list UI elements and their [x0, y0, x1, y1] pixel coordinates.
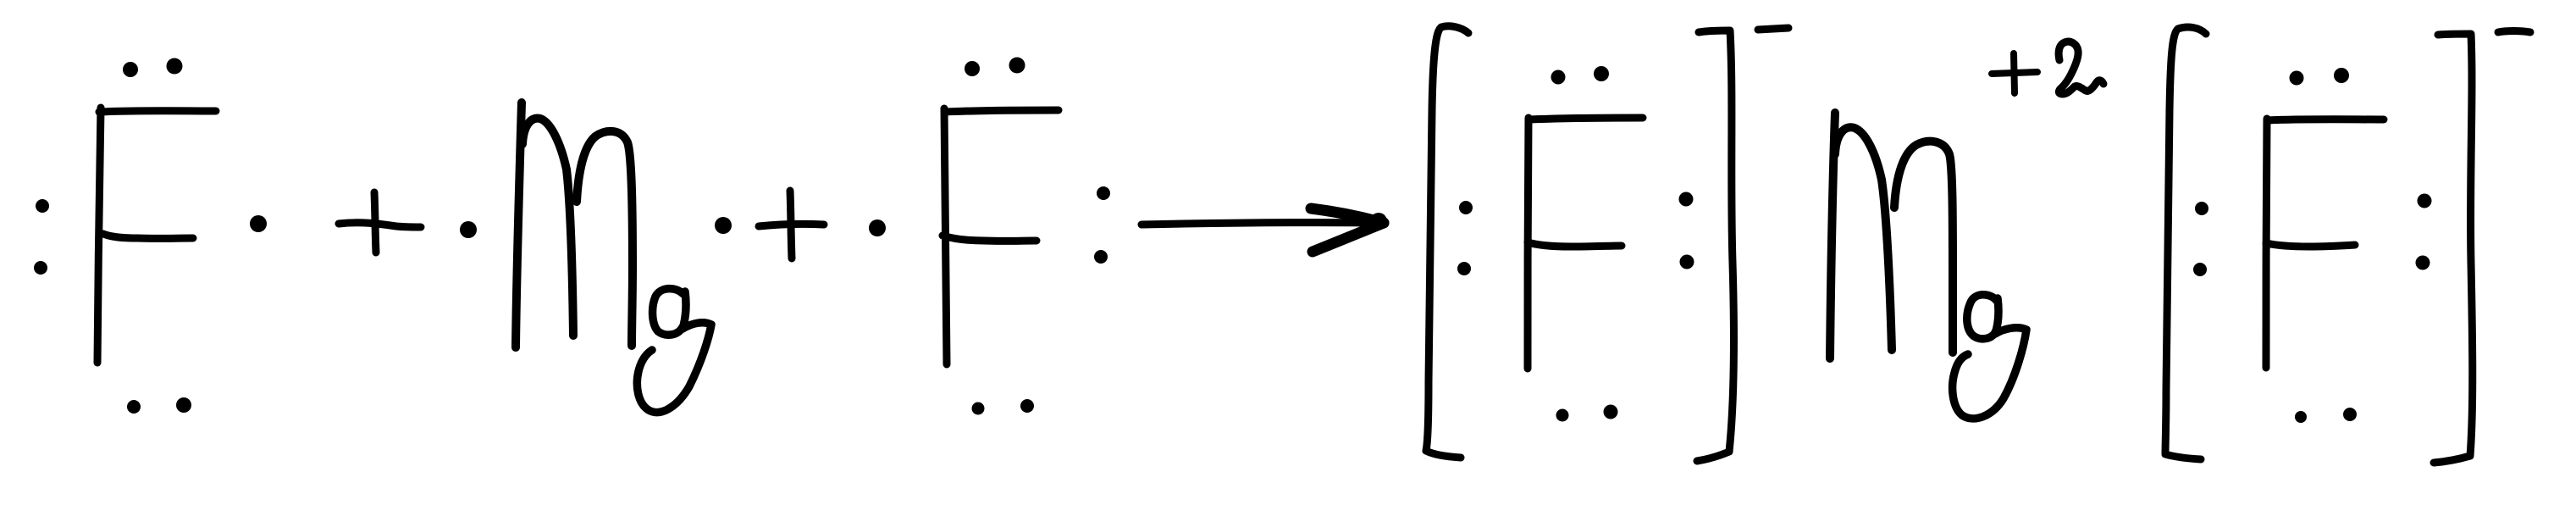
- product F2 letter F: [2266, 119, 2384, 368]
- reactant F2 bottom lone pair: [972, 399, 1035, 415]
- product F2 bottom lone pair: [2295, 408, 2357, 423]
- product Mg charge 2: [2059, 42, 2103, 94]
- product F1 right lone pair: [1679, 192, 1694, 269]
- product F1 left bracket: [1426, 26, 1468, 458]
- reactant F1 bottom lone pair: [127, 397, 191, 414]
- product Mg charge plus: [1992, 53, 2037, 93]
- product F2 left lone pair: [2193, 202, 2208, 276]
- reactant F1 left lone pair: [34, 199, 49, 275]
- product F2 negative charge: [2498, 31, 2530, 33]
- product F2 right bracket: [2434, 34, 2473, 463]
- plus sign 2: [759, 191, 824, 258]
- product Mg letter M: [1830, 113, 1953, 358]
- product F1 letter F: [1528, 118, 1643, 369]
- product Mg letter g: [1953, 295, 2026, 419]
- reactant F1 unpaired electron: [250, 215, 267, 232]
- reactant F2 letter F: [943, 108, 1059, 364]
- product F1 bottom lone pair: [1556, 405, 1618, 422]
- reactant F1 top lone pair: [123, 58, 183, 78]
- reaction arrow: [1142, 208, 1387, 252]
- product F1 right bracket: [1697, 31, 1733, 461]
- product F1 negative charge: [1758, 28, 1788, 30]
- reactant F2 unpaired electron: [869, 219, 886, 236]
- plus sign 1: [339, 192, 421, 253]
- reactant F2 top lone pair: [965, 58, 1025, 77]
- reactant Mg letter M: [516, 103, 633, 347]
- product F1 left lone pair: [1457, 201, 1473, 275]
- Mg right unpaired electron: [715, 217, 732, 234]
- product F2 top lone pair: [2290, 68, 2350, 86]
- reactant F2 right lone pair: [1094, 186, 1110, 264]
- product F2 left bracket: [2165, 27, 2206, 459]
- product F1 top lone pair: [1551, 66, 1610, 85]
- product F2 right lone pair: [2416, 194, 2432, 270]
- reactant F1 letter F: [97, 108, 216, 363]
- Mg left unpaired electron: [460, 221, 477, 238]
- reactant Mg letter g: [637, 289, 711, 413]
